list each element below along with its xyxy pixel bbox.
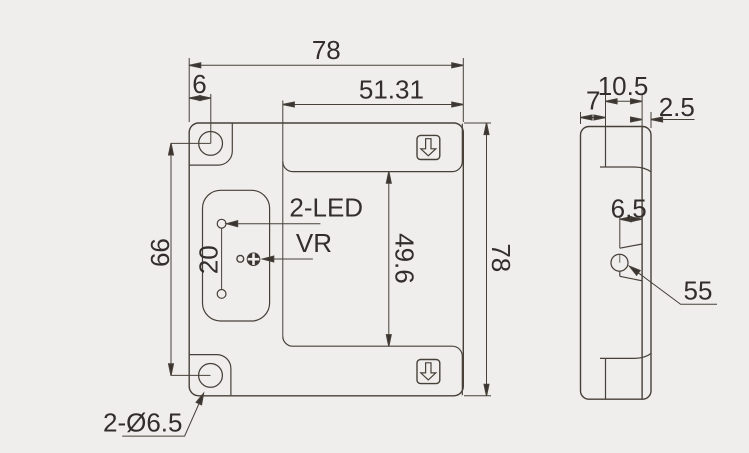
screw symbol box top <box>417 135 440 159</box>
VR notch centre line inside circle <box>619 255 621 263</box>
arrowhead 78 top left <box>189 63 201 68</box>
svg-text:78: 78 <box>312 35 341 65</box>
svg-text:VR: VR <box>296 228 332 258</box>
side bottom notch vertical <box>605 358 607 398</box>
screw symbol arrow top <box>421 139 436 156</box>
mounting hole top-left <box>199 132 223 156</box>
arrowhead 66 bottom <box>169 364 174 376</box>
arrowhead 7 left <box>581 115 593 120</box>
arrowhead 6 left <box>189 96 201 101</box>
svg-text:55: 55 <box>684 276 713 306</box>
side top notch vertical <box>605 127 607 167</box>
arrowhead 66 top <box>169 143 174 155</box>
dimension line 7 <box>581 117 606 119</box>
LED hole upper <box>217 219 226 228</box>
arrowhead 78 right top <box>484 123 489 135</box>
dimension line 6.5 <box>620 218 642 220</box>
extension line bottom hole centre horizontal (66) <box>171 374 211 376</box>
screw symbol box bottom <box>417 360 440 384</box>
bottom-left mounting boss outline <box>189 355 231 396</box>
svg-text:6: 6 <box>192 69 206 99</box>
recess upper band boundary <box>283 124 463 172</box>
svg-text:10.5: 10.5 <box>598 71 649 101</box>
arrowhead 78 top right <box>452 63 464 68</box>
arrowhead 10.5 right <box>631 99 643 104</box>
side top notch horizontal <box>600 167 651 172</box>
small pilot hole next to VR <box>237 255 244 262</box>
extension line top for 78 right <box>464 122 491 124</box>
arrowhead 7 right <box>594 115 606 120</box>
dimension line 51.31 <box>283 104 464 106</box>
VR potentiometer rim <box>247 253 260 266</box>
extension line notch for 7 and 10.5 <box>605 95 607 127</box>
extension line for 6 (hole centre vertical) <box>210 94 212 143</box>
side bottom notch horizontal <box>600 354 651 359</box>
arrowhead 6.5 left <box>620 217 632 222</box>
arrowhead 2.5 right outside <box>651 117 663 122</box>
arrowhead 49.6 bottom <box>386 335 391 347</box>
dimension line 78 right <box>486 123 488 396</box>
leader line 2-LED <box>227 223 321 225</box>
dimension line 2.5 right tail <box>651 119 695 121</box>
svg-text:2-LED: 2-LED <box>289 193 363 223</box>
VR adjuster circle on side <box>611 254 628 271</box>
VR notch lower diagonal <box>620 276 642 281</box>
arrowhead 78 right bottom <box>484 384 489 396</box>
dimension line 78 top <box>189 64 463 66</box>
arrowhead 6.5 right <box>631 217 643 222</box>
svg-text:51.31: 51.31 <box>359 74 424 104</box>
dimension line 2.5 left tail <box>634 119 643 121</box>
arrowhead leader VR <box>263 256 274 262</box>
svg-text:2-Ø6.5: 2-Ø6.5 <box>103 408 183 438</box>
arrowhead leader 55 <box>628 264 640 275</box>
VR notch upper diagonal <box>620 244 642 248</box>
extension line bottom for 78 right <box>464 395 491 397</box>
svg-text:2.5: 2.5 <box>659 92 695 122</box>
LED hole lower <box>217 290 226 299</box>
screw symbol arrow bottom <box>421 363 436 380</box>
recess left edge / 51.31 extension line <box>282 101 284 337</box>
extension line right edge for 2.5 <box>650 112 652 128</box>
extension line body left for 7 <box>580 112 582 124</box>
arrowhead 10.5 left <box>606 99 618 104</box>
svg-text:7: 7 <box>586 86 600 116</box>
arrowhead leader 2-O6.5 <box>196 392 206 404</box>
arrowhead 51.31 right <box>452 102 464 107</box>
svg-text:78: 78 <box>486 243 516 272</box>
dimension line 10.5 <box>606 100 643 102</box>
dimension line 66 <box>170 143 172 375</box>
side body outline <box>581 127 652 400</box>
svg-text:66: 66 <box>145 238 175 267</box>
LED window rounded rectangle <box>203 190 270 321</box>
top-left mounting boss outline <box>189 124 232 166</box>
VR potentiometer screw <box>247 253 260 266</box>
svg-text:20: 20 <box>194 245 224 274</box>
extension line top hole centre horizontal (66) <box>171 142 211 144</box>
extension line face for 10.5 and 2.5 <box>641 95 643 127</box>
extension line 6.5 left <box>619 216 621 249</box>
arrowhead 51.31 left <box>283 102 295 107</box>
dimension line 6 <box>189 97 211 99</box>
mounting hole bottom-left <box>199 364 223 388</box>
arrowhead 49.6 top <box>386 172 391 184</box>
side front-face line <box>641 127 643 399</box>
line between LED holes (20 dim reference) <box>221 228 223 289</box>
front body outline <box>189 123 463 396</box>
leader line 2-O6.5 <box>122 394 203 437</box>
arrowhead 2.5 left outside <box>631 117 643 122</box>
extension line right for 78 top <box>462 58 464 122</box>
svg-text:49.6: 49.6 <box>390 233 420 284</box>
VR notch lower stub <box>619 271 621 276</box>
extension line left for 78 top <box>188 58 190 122</box>
dimension line 49.6 <box>388 172 390 347</box>
arrowhead leader 2-LED <box>227 221 238 227</box>
leader line VR <box>263 258 313 260</box>
leader line 55 <box>630 266 718 304</box>
svg-text:6.5: 6.5 <box>611 194 647 224</box>
recess lower band boundary <box>283 336 463 395</box>
arrowhead 6 right <box>199 96 211 101</box>
